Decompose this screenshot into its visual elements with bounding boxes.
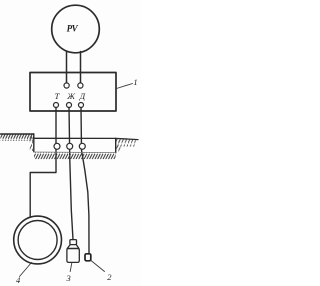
svg-text:Д: Д [79, 92, 86, 101]
wire [80, 52, 82, 85]
leader line 3 [70, 263, 72, 272]
terminal [67, 103, 72, 108]
terminal [64, 83, 69, 88]
voltmeter PV [52, 5, 100, 53]
svg-text:3: 3 [66, 273, 71, 283]
svg-text:1: 1 [133, 77, 137, 87]
wire [66, 52, 68, 85]
spark plug 3 [67, 240, 79, 263]
pit floor [34, 152, 116, 159]
device box 1 [30, 73, 116, 112]
floor surface left [1, 135, 34, 141]
floor surface right [116, 139, 136, 147]
terminal [79, 103, 84, 108]
leader line 1 [117, 84, 133, 89]
wire [81, 108, 89, 254]
terminal [78, 83, 83, 88]
bushing insulator [54, 143, 60, 149]
pit left wall [33, 134, 35, 152]
leader line 2 [91, 261, 105, 272]
induction coil 4 [14, 216, 62, 264]
svg-text:PV: PV [67, 23, 79, 33]
svg-text:Т: Т [55, 92, 61, 101]
terminal [54, 103, 59, 108]
leader line 4 [20, 263, 32, 277]
svg-text:2: 2 [107, 272, 112, 282]
svg-text:Ж: Ж [66, 92, 75, 101]
panel line [34, 137, 116, 139]
svg-text:4: 4 [16, 275, 21, 285]
bushing insulator [79, 143, 85, 149]
wire [69, 108, 73, 240]
wire [30, 108, 56, 218]
bushing insulator [67, 143, 73, 149]
pit right wall [115, 138, 117, 152]
discharger 2 [85, 254, 91, 261]
